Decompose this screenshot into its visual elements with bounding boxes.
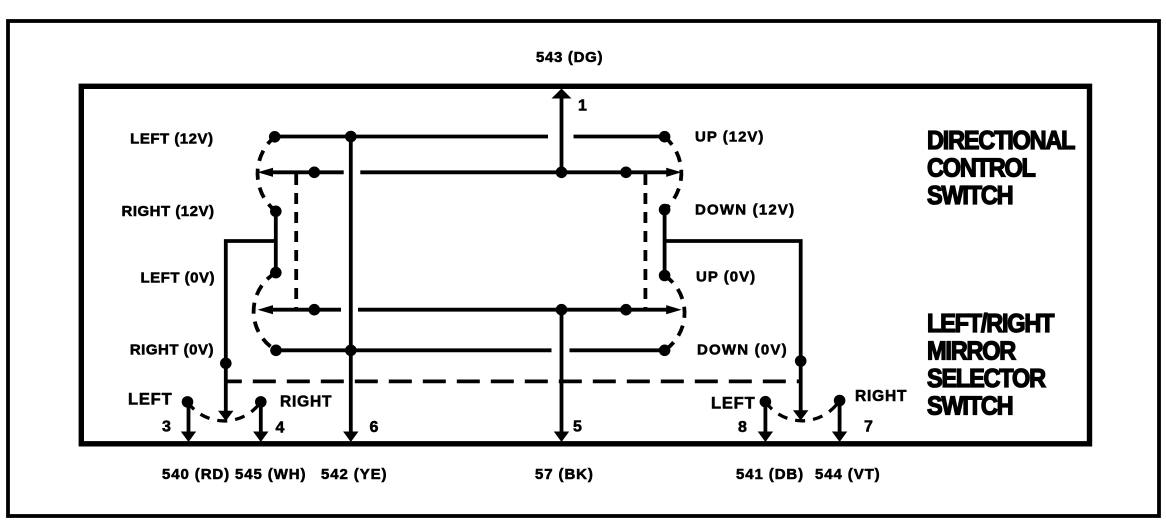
svg-text:LEFT (0V): LEFT (0V) [141, 269, 216, 286]
contact selector left RIGHT [255, 396, 267, 408]
junction rail A pivot left [309, 167, 321, 179]
wire branch to left selector [226, 241, 276, 412]
svg-text:LEFT: LEFT [128, 391, 172, 409]
contact RIGHT 0V [270, 345, 282, 357]
wire rail T (LEFT 12V to UP 12V) [275, 135, 665, 139]
pin 3 arrowhead [181, 432, 196, 443]
svg-text:RIGHT: RIGHT [280, 394, 332, 411]
wire RIGHT12V to LEFT0V [274, 211, 278, 272]
svg-text:SELECTOR: SELECTOR [927, 365, 1046, 393]
contact RIGHT 12V [270, 206, 282, 218]
wiper arc UP/DOWN 0V [665, 276, 685, 351]
wiper arc UP/DOWN 12V [665, 137, 682, 210]
wire rail B (0V wiper common) [271, 308, 668, 312]
pin 7 arrowhead [832, 432, 847, 443]
svg-text:3: 3 [162, 419, 171, 436]
pin 4 arrowhead [253, 432, 268, 443]
svg-text:UP (12V): UP (12V) [695, 129, 764, 146]
svg-text:1: 1 [578, 98, 587, 115]
wire rail A (12V wiper common) [271, 170, 668, 174]
svg-text:541 (DB): 541 (DB) [736, 466, 804, 483]
selector dashed bar [226, 379, 801, 383]
svg-text:CONTROL: CONTROL [927, 155, 1036, 183]
junction rail A / pin 1 [556, 167, 568, 179]
rail A left arrowhead [258, 168, 273, 177]
rail B right arrowhead [666, 305, 681, 314]
svg-text:DOWN (12V): DOWN (12V) [695, 202, 795, 219]
svg-text:6: 6 [370, 419, 379, 436]
svg-text:540 (RD): 540 (RD) [162, 466, 230, 483]
svg-text:5: 5 [573, 419, 582, 436]
pin 5 arrowhead [554, 432, 569, 443]
contact LEFT 12V [269, 131, 281, 143]
svg-text:MIRROR: MIRROR [927, 338, 1016, 366]
svg-text:RIGHT: RIGHT [855, 388, 907, 405]
svg-text:8: 8 [738, 419, 747, 436]
pin 1 wire (543 DG feed) [560, 95, 564, 172]
svg-text:544 (VT): 544 (VT) [815, 466, 881, 483]
svg-text:DOWN (0V): DOWN (0V) [697, 341, 788, 358]
contact selector right LEFT [760, 396, 772, 408]
contact DOWN 0V [659, 345, 671, 357]
wire RIGHT0V to DOWN0V [276, 348, 665, 352]
svg-text:LEFT (12V): LEFT (12V) [130, 130, 213, 147]
svg-text:545 (WH): 545 (WH) [235, 466, 306, 483]
junction right selector feed [795, 355, 807, 367]
wire DOWN12V to UP0V [663, 210, 667, 276]
svg-text:LEFT/RIGHT: LEFT/RIGHT [927, 310, 1054, 338]
pin 8 arrowhead [758, 432, 773, 443]
pin 6 arrowhead [343, 432, 358, 443]
svg-text:DIRECTIONAL: DIRECTIONAL [927, 127, 1075, 155]
svg-text:RIGHT (12V): RIGHT (12V) [121, 203, 214, 220]
svg-text:4: 4 [276, 420, 285, 437]
contact UP 0V [659, 270, 671, 282]
junction rail T / pin 6 [345, 131, 357, 143]
rail A right arrowhead [666, 168, 681, 177]
pin 1 arrowhead [552, 89, 572, 99]
mechanical link left (dashed) [294, 174, 298, 308]
right selector wiper arrowhead [793, 410, 808, 420]
svg-text:7: 7 [864, 419, 873, 436]
contact UP 12V [659, 131, 671, 143]
svg-text:RIGHT (0V): RIGHT (0V) [130, 341, 214, 358]
wiper arc LEFT/RIGHT 12V [258, 137, 276, 212]
junction rail B pivot right [620, 304, 632, 316]
junction rail A pivot right [620, 167, 632, 179]
contact selector left LEFT [182, 396, 194, 408]
svg-text:UP (0V): UP (0V) [696, 269, 756, 286]
title LEFT/RIGHT MIRROR SELECTOR SWITCH [927, 310, 1054, 421]
svg-text:543 (DG): 543 (DG) [536, 49, 603, 66]
title DIRECTIONAL CONTROL SWITCH [927, 127, 1075, 210]
junction rail B pivot left [309, 304, 321, 316]
junction DOWN0V line / pin 6 [345, 345, 357, 357]
left selector arc [188, 402, 261, 421]
junction left selector feed [220, 358, 232, 370]
wire branch to right selector [665, 241, 801, 412]
contact selector right RIGHT [834, 395, 846, 407]
wiper arc LEFT/RIGHT 0V [254, 273, 276, 351]
junction rail B / pin 5 [556, 304, 568, 316]
wire pin 6 (542 YE) [349, 137, 353, 433]
right selector arc [765, 401, 839, 421]
wire pin 8 (541 DB) [764, 402, 768, 432]
wire pin 7 (544 VT) [838, 401, 842, 433]
svg-text:SWITCH: SWITCH [927, 393, 1013, 421]
svg-text:57 (BK): 57 (BK) [535, 466, 594, 483]
wire pin 4 (545 WH) [259, 402, 263, 432]
rail B left arrowhead [258, 305, 273, 314]
left selector wiper arrowhead [218, 411, 233, 421]
svg-text:LEFT: LEFT [711, 395, 755, 413]
switch body box [81, 86, 1089, 444]
svg-text:542 (YE): 542 (YE) [321, 466, 387, 483]
contact LEFT 0V [270, 267, 282, 279]
svg-text:SWITCH: SWITCH [927, 182, 1013, 210]
wire pin 3 (540 RD) [187, 402, 191, 432]
contact DOWN 12V [659, 204, 671, 216]
wire pin 5 (57 BK) [560, 310, 564, 432]
mechanical link right (dashed) [644, 174, 648, 308]
